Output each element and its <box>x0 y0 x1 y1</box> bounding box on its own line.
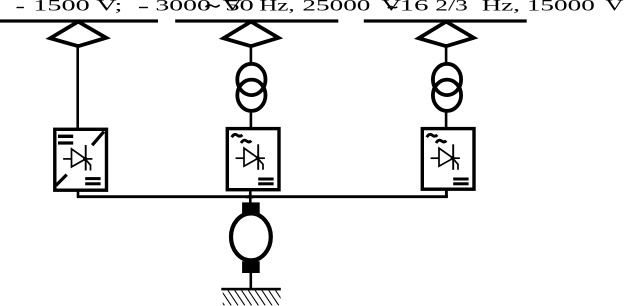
svg-text:1500 V;: 1500 V; <box>33 0 122 14</box>
pantograph right <box>419 22 474 47</box>
transformer T2 right <box>433 64 461 111</box>
U2 DC output symbol "=" <box>258 178 273 186</box>
svg-text:Hz,: Hz, <box>259 0 295 14</box>
junction arrow at rail <box>246 193 253 198</box>
wire motor to ground <box>250 272 253 289</box>
U1 DC input symbol "=" <box>58 135 73 145</box>
ground bar <box>221 288 280 291</box>
label "- 3000 V" dash <box>139 7 148 8</box>
thyristor inside U2 <box>236 144 265 170</box>
catenary bus 2 (50 Hz 25000 V) <box>175 19 338 22</box>
catenary bus 1 (1500/3000 V DC) <box>0 19 158 22</box>
wire right transformer to converter <box>445 111 448 129</box>
U2 AC input symbol "~" 1 <box>232 134 243 137</box>
svg-text:3000: 3000 <box>155 0 210 14</box>
U1 diagonal top-right <box>92 132 104 146</box>
DC rail <box>77 195 448 198</box>
motor M body <box>231 213 271 260</box>
transformer T1 middle <box>237 64 265 111</box>
svg-text:15000: 15000 <box>527 0 595 14</box>
svg-text:16: 16 <box>400 0 429 14</box>
U1 diagonal bottom-left <box>56 175 67 186</box>
pantograph left <box>50 22 106 47</box>
svg-text:50: 50 <box>225 0 254 14</box>
svg-text:2/3: 2/3 <box>435 0 468 14</box>
wire left pantograph to converter <box>76 44 79 129</box>
thyristor inside U1 <box>63 145 92 171</box>
U2 AC input symbol "~" 2 <box>241 140 251 143</box>
wire middle transformer to converter <box>250 111 253 129</box>
converter U1 box (DC chopper) <box>55 129 107 190</box>
wire middle box to motor <box>249 190 252 204</box>
label "- 1500 V;" dash <box>17 7 24 8</box>
wire middle pantograph to transformer <box>250 44 253 63</box>
motor M terminal bottom <box>242 261 260 273</box>
svg-text:25000: 25000 <box>302 0 370 14</box>
ground hatching <box>214 290 286 306</box>
svg-text:V: V <box>605 0 623 14</box>
label "~" of ~16 2/3 Hz <box>388 6 398 8</box>
U1 DC output symbol "=" <box>85 177 100 185</box>
label "~" of ~50 Hz <box>206 5 220 7</box>
wire stub right box to DC rail <box>445 190 448 197</box>
thyristor inside U3 <box>431 144 460 170</box>
converter U3 box (rectifier right) <box>422 129 474 190</box>
U3 AC input symbol "~" 2 <box>436 140 446 143</box>
svg-text:,: , <box>513 0 520 14</box>
motor M terminal top <box>242 202 260 214</box>
converter U2 box (rectifier middle) <box>227 129 279 190</box>
U3 DC output symbol "=" <box>453 178 468 186</box>
svg-text:Hz: Hz <box>482 0 514 14</box>
catenary bus 3 (16 2/3 Hz 15000 V) <box>364 19 527 22</box>
U3 AC input symbol "~" 1 <box>427 134 438 137</box>
pantograph middle <box>224 22 279 47</box>
wire stub left box to DC rail <box>77 190 80 197</box>
wire right pantograph to transformer <box>445 44 448 63</box>
